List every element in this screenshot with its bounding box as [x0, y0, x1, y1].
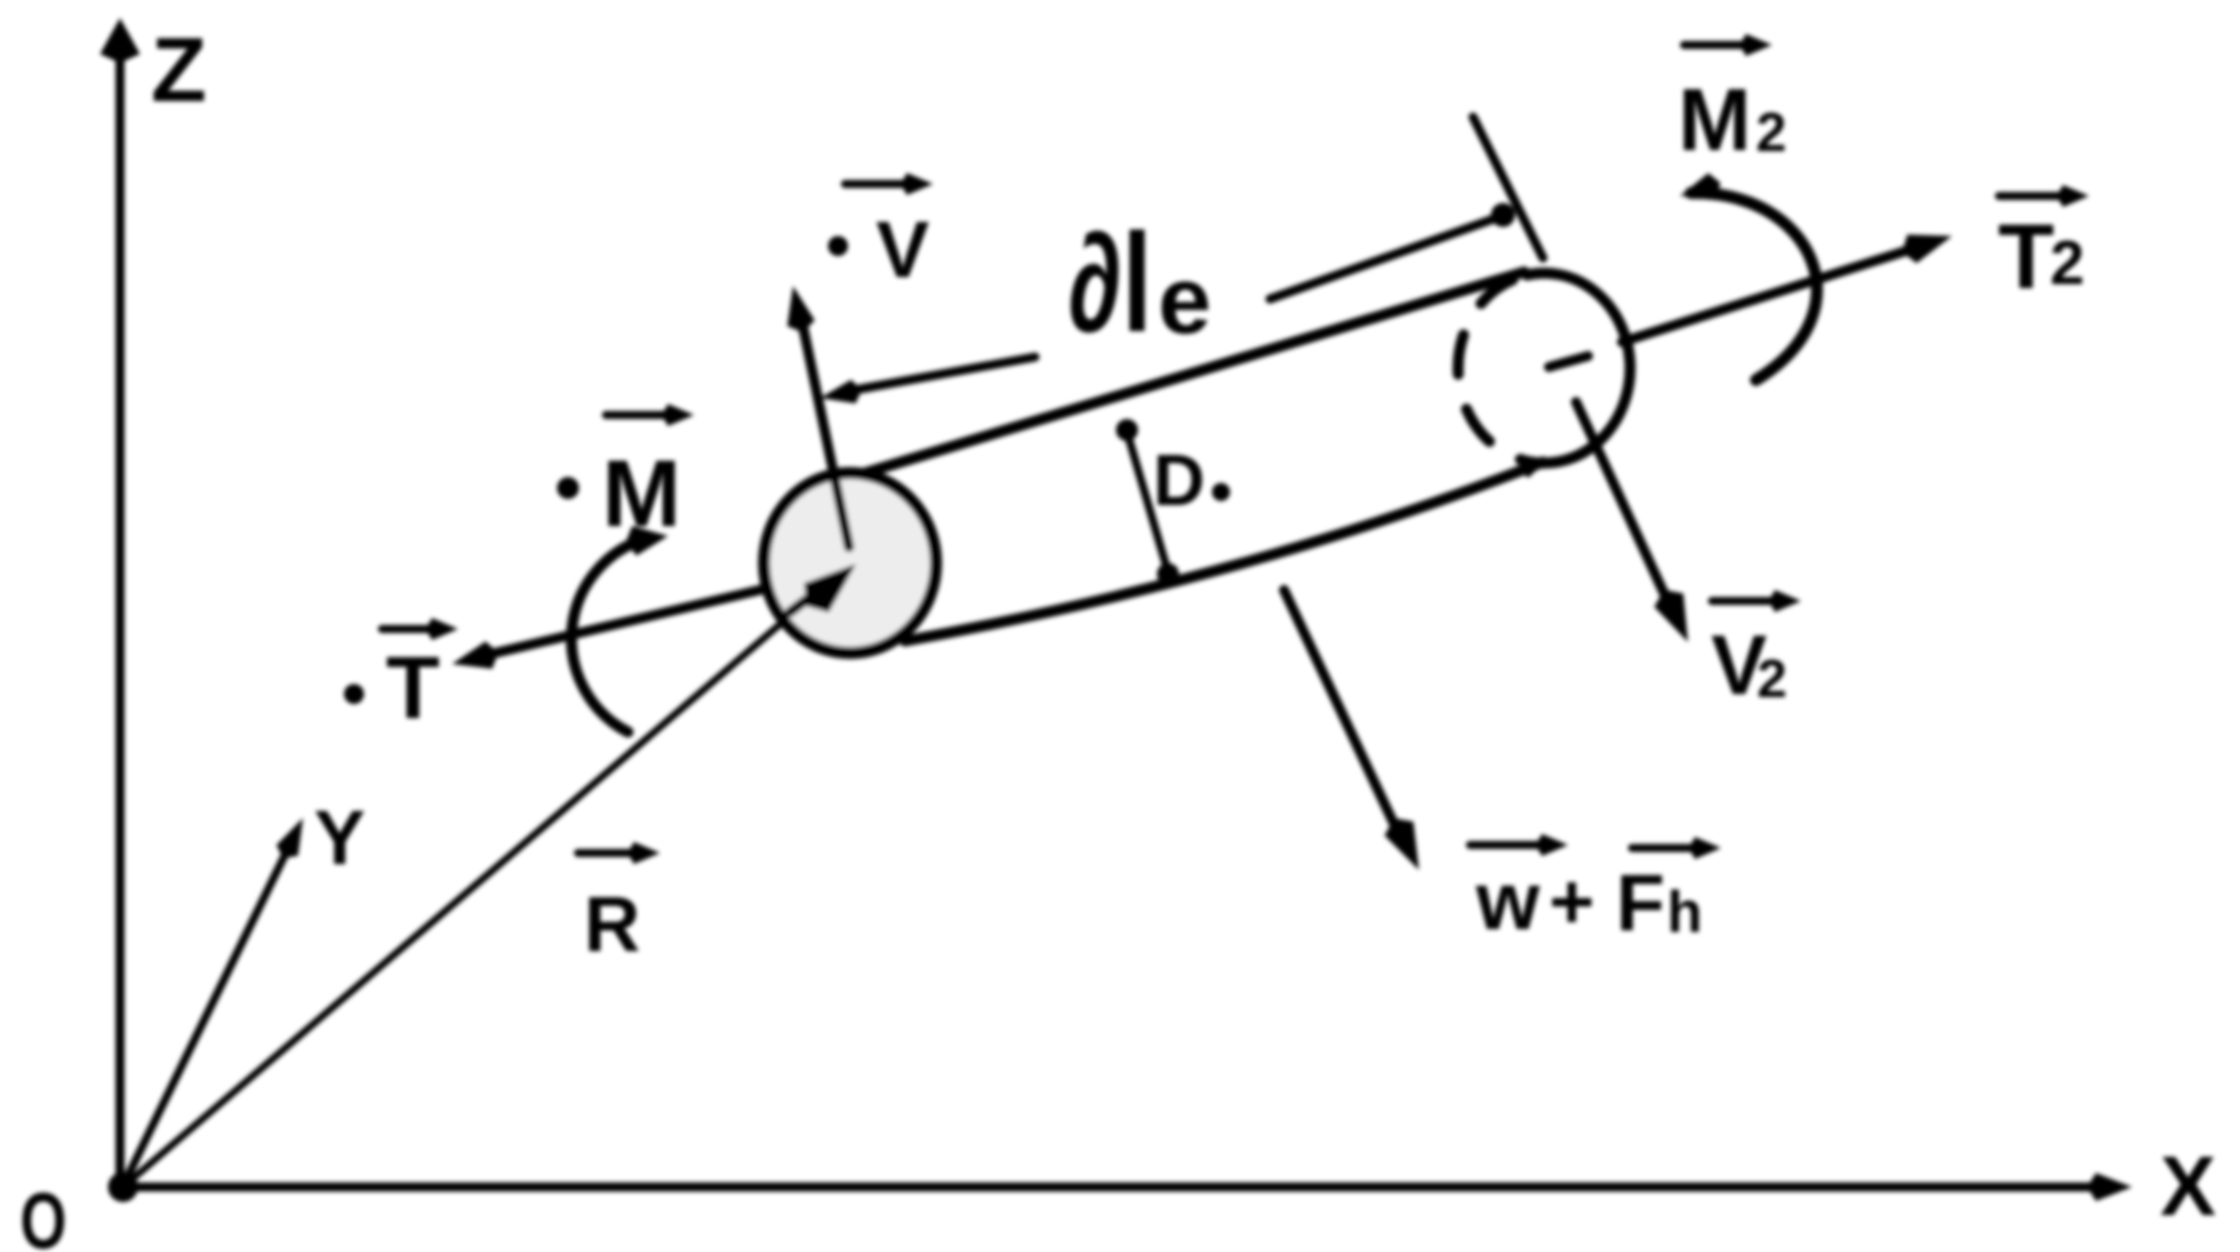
- svg-text:2: 2: [1757, 649, 1787, 709]
- svg-text:X: X: [2160, 1139, 2216, 1233]
- svg-text:T: T: [386, 638, 440, 737]
- svg-text:Z: Z: [151, 20, 207, 121]
- svg-text:2: 2: [1756, 101, 1787, 163]
- svg-text:h: h: [1667, 880, 1702, 945]
- svg-text:e: e: [1158, 247, 1211, 354]
- svg-text:∂l: ∂l: [1068, 204, 1152, 361]
- svg-text:F: F: [1616, 858, 1665, 947]
- svg-text:D: D: [1153, 441, 1205, 521]
- svg-text:T: T: [1998, 206, 2054, 308]
- svg-text:V: V: [876, 205, 929, 294]
- svg-text:M: M: [602, 441, 681, 547]
- svg-text:M: M: [1678, 70, 1751, 169]
- svg-text:O: O: [20, 1176, 67, 1252]
- svg-text:Y: Y: [314, 795, 365, 881]
- svg-text:2: 2: [2050, 229, 2084, 298]
- svg-text:+: +: [1549, 857, 1595, 945]
- svg-text:R: R: [584, 880, 640, 968]
- svg-text:w: w: [1475, 856, 1540, 947]
